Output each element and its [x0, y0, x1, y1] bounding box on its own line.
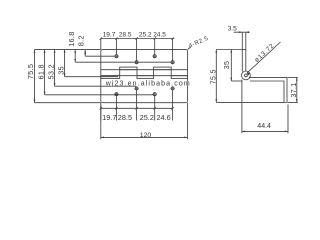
- svg-text:35: 35: [224, 61, 231, 70]
- 35 side dim line: [230, 50, 232, 82]
- fan hook 53.2: [55, 85, 136, 87]
- 37.1 dim line: [296, 77, 298, 102]
- svg-text:28.5: 28.5: [118, 113, 132, 122]
- fan dim 16.8: [74, 50, 76, 63]
- hole upper A1: [115, 55, 118, 58]
- hole upper B2: [135, 61, 138, 64]
- 37.1 top ext: [288, 76, 298, 78]
- fan hook 8.2: [85, 55, 115, 57]
- hole lower D3: [153, 93, 156, 96]
- bottom chain ext hole2: [136, 90, 138, 121]
- 44.4 arrows: [242, 131, 245, 133]
- svg-text:8.2: 8.2: [77, 35, 86, 46]
- dia leader arrow: [247, 73, 250, 76]
- hole upper B4: [171, 61, 174, 64]
- svg-text:19.7: 19.7: [102, 113, 116, 122]
- top chain ext hole2: [136, 39, 138, 61]
- svg-text:35: 35: [56, 66, 65, 75]
- side leaf right edge: [245, 32, 247, 71]
- top chain ext hole3: [154, 39, 156, 55]
- 35 side bottom ext: [231, 80, 242, 82]
- front view plate outline: [101, 50, 188, 103]
- hole lower C2: [135, 87, 138, 90]
- fan dim 61.8: [44, 50, 46, 95]
- 3.5 outside arrows: [239, 31, 242, 33]
- 75.5 side bottom ext: [216, 101, 284, 103]
- 37.1 arrows: [296, 77, 298, 80]
- hole lower D1: [115, 93, 118, 96]
- fan hook 16.8: [75, 61, 171, 63]
- bottom chain ext hole4: [172, 90, 174, 121]
- svg-text:120: 120: [140, 132, 152, 139]
- svg-text:37.1: 37.1: [291, 82, 298, 97]
- fan dim 53.2: [54, 50, 56, 87]
- top chain ext left edge: [100, 39, 102, 50]
- knuckle bump lower 2: [137, 76, 154, 79]
- knuckle divider 2: [136, 70, 138, 76]
- barrel bottom line: [101, 75, 188, 77]
- svg-text:3.5: 3.5: [228, 25, 237, 32]
- barrel top line: [101, 69, 188, 71]
- svg-text:16.8: 16.8: [67, 31, 76, 46]
- bottom chain ext hole3: [154, 96, 156, 121]
- 75.5 side top ext: [216, 49, 242, 51]
- knuckle pin hole: [245, 74, 248, 77]
- fan dim 8.2: [84, 50, 86, 57]
- fan hook 75.5: [35, 102, 101, 104]
- knuckle divider 1: [119, 70, 121, 76]
- hole center marks: [114, 54, 175, 96]
- top chain dim line: [101, 38, 174, 40]
- bottom chain ext hole1: [115, 96, 117, 121]
- svg-text:44.4: 44.4: [257, 123, 271, 130]
- svg-text:25.2: 25.2: [140, 113, 154, 122]
- dimension texts: [26, 25, 298, 139]
- svg-text:24.5: 24.5: [153, 31, 166, 38]
- 44.4 dim line: [242, 130, 288, 132]
- 3.5 dim line: [234, 31, 250, 33]
- fan hook 61.8: [45, 94, 154, 96]
- chain tick slashes: [100, 37, 174, 109]
- bottom chain ext left edge: [100, 103, 102, 121]
- svg-text:24.6: 24.6: [157, 113, 171, 122]
- bottom chain dim line: [101, 107, 173, 109]
- fan top arrows: [34, 50, 36, 53]
- 44.4 ext right: [287, 105, 289, 134]
- 4-R2.5 leader: [188, 47, 191, 50]
- knuckle bump upper 2: [154, 67, 172, 70]
- 120 dim line: [101, 136, 188, 138]
- 35 side arrows: [230, 50, 232, 53]
- top chain ext hole4: [172, 39, 174, 61]
- fan bottom arrows: [34, 100, 36, 103]
- svg-text:61.8: 61.8: [36, 64, 45, 79]
- hole lower C4: [171, 87, 174, 90]
- svg-text:53.2: 53.2: [46, 64, 55, 79]
- 37.1 bottom ext: [288, 102, 298, 104]
- top chain ext hole1: [115, 39, 117, 55]
- fan dim 75.5: [34, 50, 36, 103]
- 75.5 side dim line: [215, 50, 217, 103]
- arrowheads: [34, 31, 298, 138]
- 44.4 ext left: [241, 80, 243, 134]
- knuckle outer circle: [242, 71, 251, 80]
- hole upper A3: [153, 55, 156, 58]
- svg-text:75.5: 75.5: [210, 69, 217, 84]
- fan hook 35: [65, 76, 118, 78]
- knuckle bump lower 1: [101, 76, 120, 79]
- 120 ext right: [187, 103, 189, 140]
- dia 13.72 leader: [247, 42, 281, 73]
- svg-text:19.7: 19.7: [103, 31, 116, 38]
- 120 ext left: [100, 105, 102, 140]
- svg-text:75.5: 75.5: [26, 64, 35, 79]
- knuckle divider 3: [153, 70, 155, 76]
- knuckle bump lower 3: [171, 76, 187, 79]
- fan dim 35: [64, 50, 66, 77]
- 120 arrows: [101, 137, 104, 139]
- 75.5 side arrows: [215, 50, 217, 53]
- knuckle divider 4: [170, 70, 172, 76]
- side leaf top cap: [242, 49, 246, 51]
- svg-text:wj23.en.alibaba.com: wj23.en.alibaba.com: [105, 80, 191, 87]
- knuckle bump upper 1: [120, 67, 137, 70]
- fan top reference line: [35, 49, 101, 51]
- svg-text:25.2: 25.2: [139, 31, 152, 38]
- L-leaf outline: [249, 77, 287, 102]
- svg-text:28.5: 28.5: [119, 31, 132, 38]
- side leaf left edge: [241, 32, 243, 71]
